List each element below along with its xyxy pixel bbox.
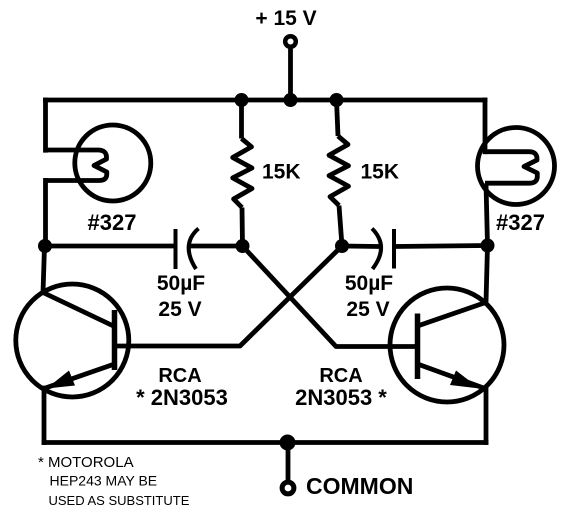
+15V supply terminal bbox=[285, 36, 296, 47]
node D junction (lamp I2 / C2 / Q2 collector) bbox=[481, 239, 495, 253]
svg-text:RCA: RCA bbox=[158, 365, 201, 387]
svg-text:2N3053 *: 2N3053 * bbox=[295, 385, 387, 410]
wire: node A to C1 bbox=[45, 244, 174, 249]
wire: Q2 collector up to node D bbox=[486, 246, 488, 303]
svg-text:50µF: 50µF bbox=[157, 272, 205, 295]
wire: +15V terminal to top rail bbox=[288, 47, 293, 100]
transistor Q1 emitter arrow bbox=[47, 371, 76, 389]
junction: top rail / R2 bbox=[330, 93, 344, 107]
node C junction (R2 / C2 / Q1 base) bbox=[335, 239, 349, 253]
resistor R1 top lead bbox=[239, 100, 244, 139]
resistor R1 bottom lead bbox=[240, 208, 245, 247]
lamp I2 envelope bbox=[478, 128, 555, 205]
junction: top rail / +15V bbox=[284, 93, 298, 107]
resistor R2 top lead bbox=[337, 100, 339, 136]
svg-text:50µF: 50µF bbox=[345, 272, 393, 295]
transistor Q1 envelope bbox=[16, 284, 129, 397]
junction: bottom rail / COMMON bbox=[280, 435, 296, 451]
wire: lamp I1 down to node A bbox=[43, 180, 48, 246]
svg-text:25 V: 25 V bbox=[346, 298, 389, 321]
wire: Q2 emitter down to bottom rail bbox=[484, 388, 489, 443]
svg-text:#327: #327 bbox=[88, 210, 137, 235]
svg-text:25 V: 25 V bbox=[158, 298, 201, 321]
transistor Q2 emitter stroke bbox=[418, 364, 486, 389]
svg-text:* 2N3053: * 2N3053 bbox=[136, 385, 228, 410]
svg-text:15K: 15K bbox=[361, 161, 400, 184]
junction: top rail / R1 bbox=[235, 93, 249, 107]
wire: top rail bbox=[46, 98, 486, 103]
wire: Q1 base lead and diagonal up to node C bbox=[115, 246, 343, 346]
wire: Q1 emitter down to bottom rail bbox=[42, 388, 47, 443]
transistor Q2 collector stroke bbox=[418, 303, 486, 327]
wire: lamp I2 down to node D bbox=[486, 184, 488, 246]
wire: C2 to node D bbox=[394, 246, 488, 247]
transistor Q1 base bar bbox=[112, 310, 118, 370]
wire: node A down to Q1 collector bbox=[43, 246, 45, 293]
svg-text:RCA: RCA bbox=[319, 365, 362, 387]
svg-text:HEP243 MAY BE: HEP243 MAY BE bbox=[50, 473, 158, 489]
transistor Q2 envelope bbox=[390, 288, 504, 402]
COMMON terminal bbox=[282, 482, 294, 494]
wire: C1 to node B bbox=[190, 244, 243, 249]
capacitor C2 straight plate bbox=[392, 229, 396, 269]
lamp I1 filament and leads bbox=[46, 150, 107, 181]
svg-text:COMMON: COMMON bbox=[306, 473, 413, 499]
transistor Q1 collector stroke bbox=[43, 293, 115, 327]
svg-text:15K: 15K bbox=[262, 161, 301, 184]
svg-text:USED AS SUBSTITUTE: USED AS SUBSTITUTE bbox=[49, 493, 190, 507]
lamp I1 envelope bbox=[75, 125, 151, 201]
transistor Q2 base bar bbox=[415, 314, 421, 380]
transistor Q2 emitter arrow bbox=[450, 371, 480, 389]
wire: top rail down to lamp I1 bbox=[43, 100, 48, 150]
node A junction (lamp I1 / C1 / Q1 collector) bbox=[38, 239, 52, 253]
wire: Q2 base lead and diagonal up to node B bbox=[243, 246, 418, 347]
capacitor C1 straight plate bbox=[174, 229, 178, 269]
svg-text:* MOTOROLA: * MOTOROLA bbox=[38, 454, 134, 471]
resistor R2 bottom lead bbox=[339, 206, 342, 247]
capacitor C2 curved plate bbox=[372, 229, 381, 270]
svg-text:+ 15 V: + 15 V bbox=[255, 7, 316, 30]
capacitor C1 curved plate bbox=[189, 229, 199, 270]
wire: node C to C2 bbox=[342, 244, 379, 249]
wire: bottom rail bbox=[44, 440, 486, 445]
transistor Q1 emitter stroke bbox=[44, 364, 115, 389]
lamp I2 filament and leads bbox=[485, 152, 537, 184]
resistor R2 zigzag bbox=[329, 136, 349, 206]
svg-text:#327: #327 bbox=[496, 210, 545, 235]
wire: bottom rail to COMMON terminal bbox=[286, 443, 291, 482]
wire: top rail down to lamp I2 bbox=[483, 100, 488, 152]
resistor R1 zigzag bbox=[233, 139, 252, 208]
node B junction (R1 / C1 / Q2 base) bbox=[236, 239, 250, 253]
